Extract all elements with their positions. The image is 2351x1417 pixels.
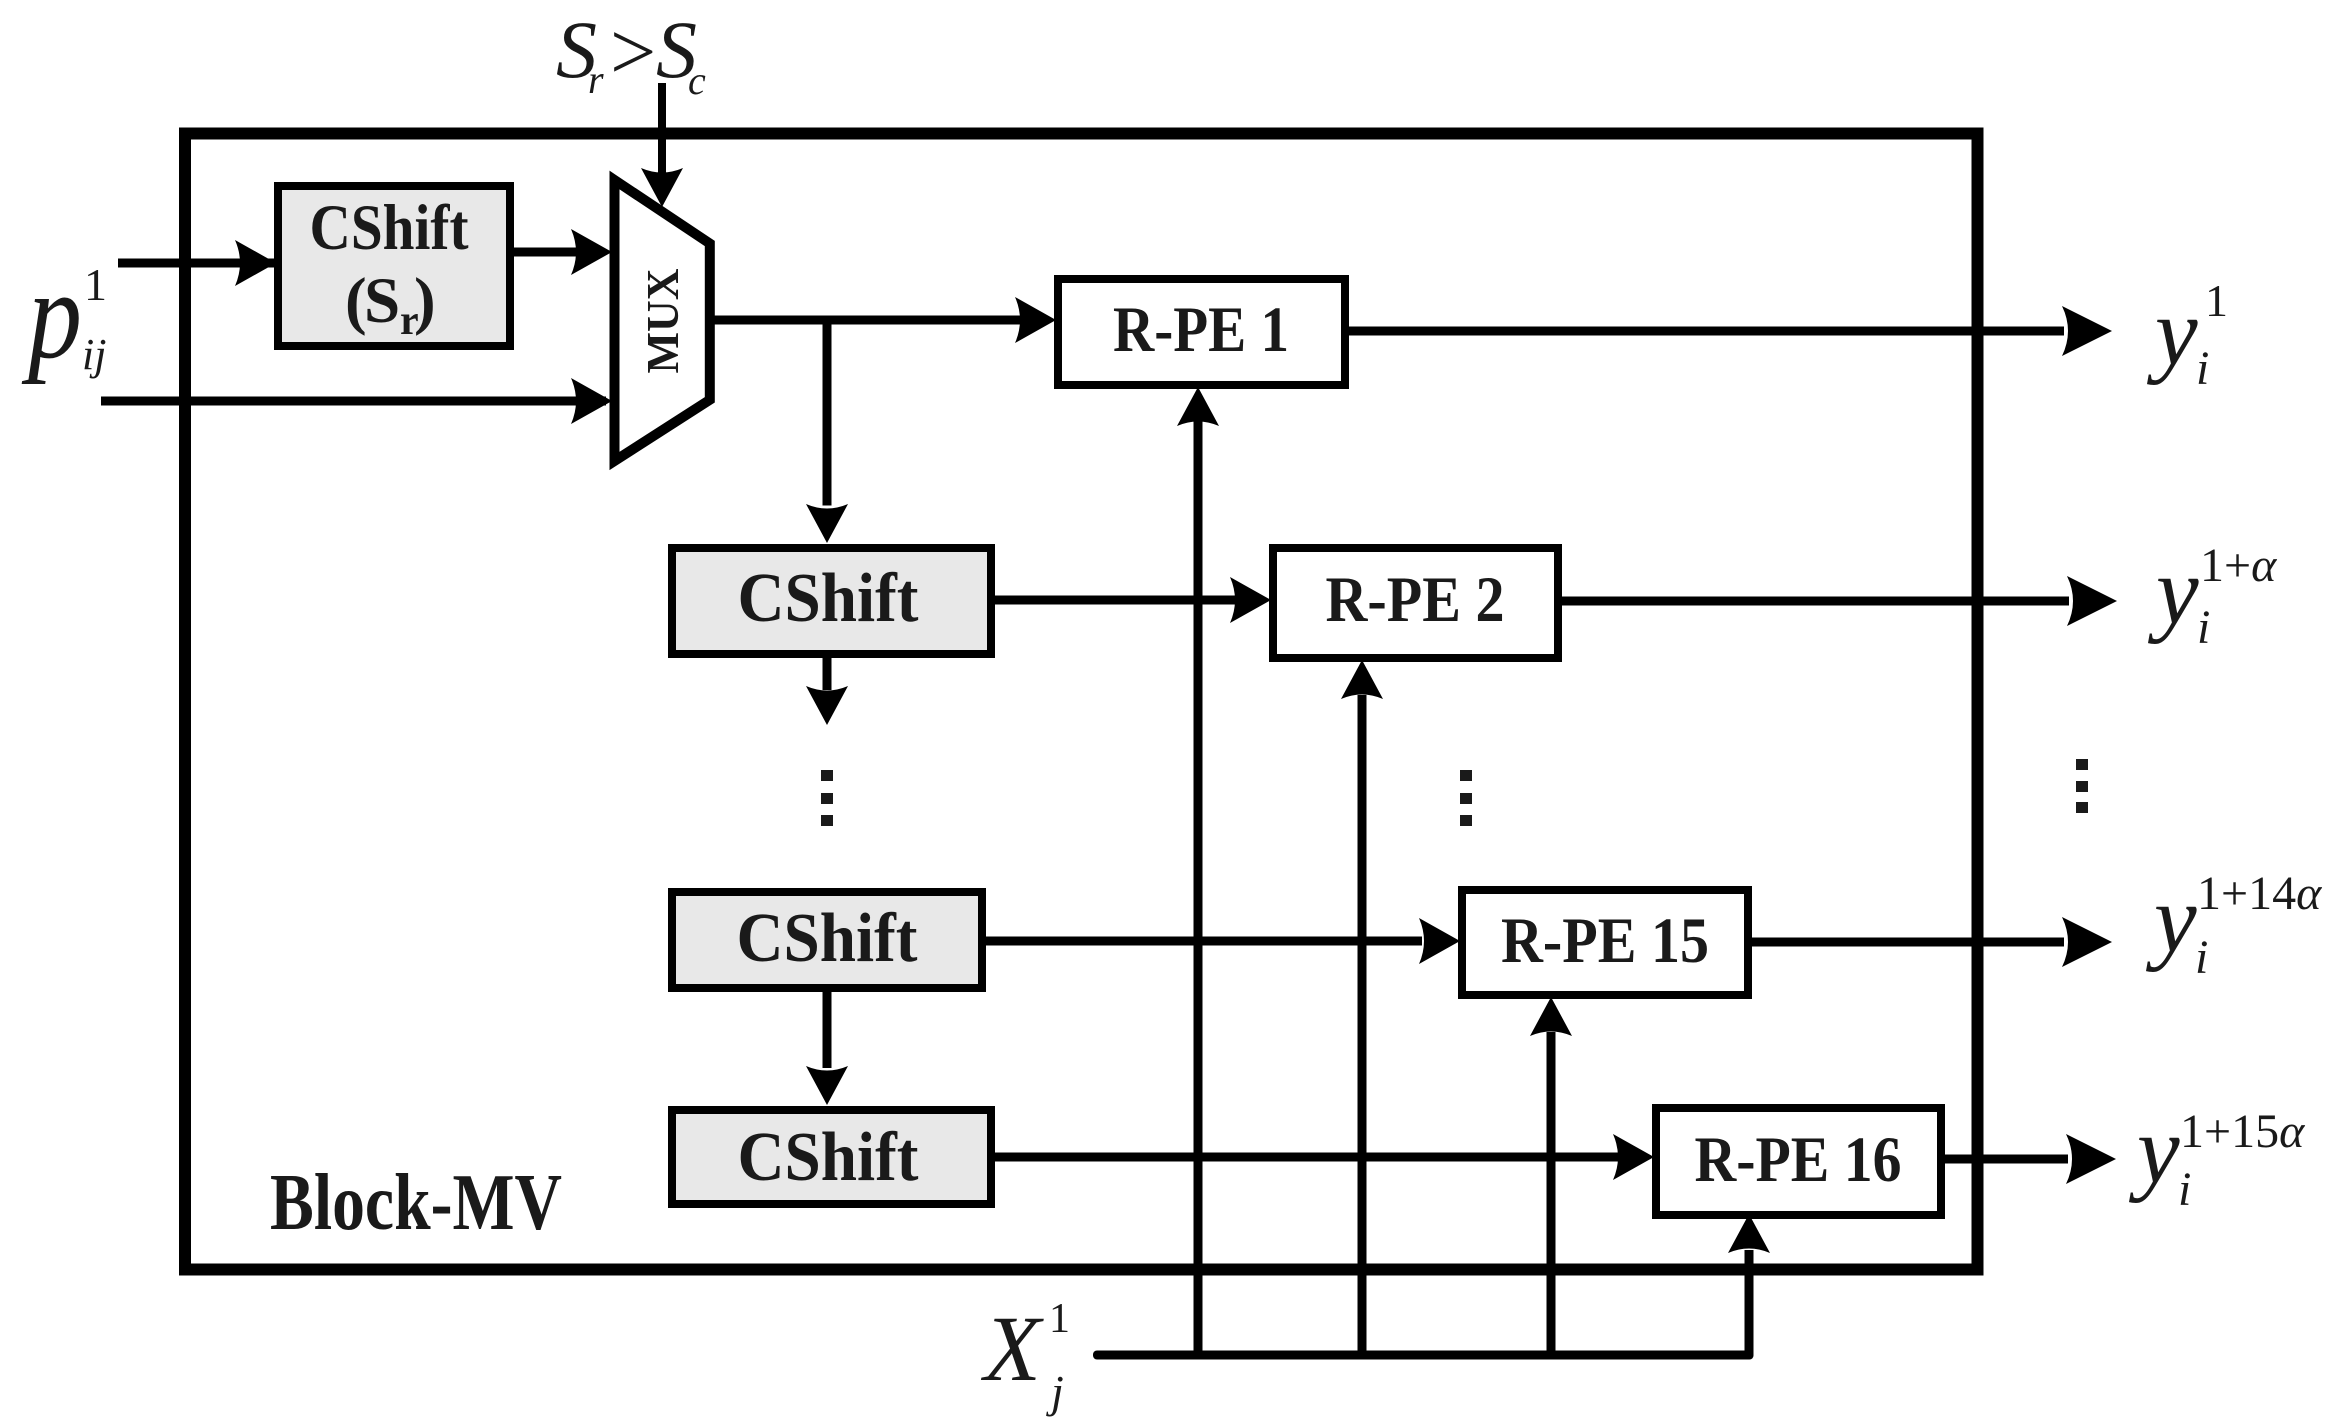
- svg-text:R-PE 16: R-PE 16: [1695, 1124, 1902, 1196]
- arrow into CShift(Sr): [235, 240, 276, 286]
- block R-PE 16: [1656, 1108, 1941, 1215]
- svg-text:1+14α: 1+14α: [2197, 867, 2322, 920]
- riser to R-PE 15: [1547, 1032, 1556, 1355]
- wire X_j bus: [1093, 1351, 1754, 1360]
- arrow into MUX upper: [571, 229, 612, 275]
- wire branch down to CShift 2: [823, 316, 832, 506]
- wire p_ij lower input: [101, 397, 606, 406]
- svg-text:1: 1: [2205, 275, 2228, 326]
- block CShift 3: [672, 892, 982, 988]
- arrow into CShift 2 top: [806, 504, 848, 543]
- wire R-PE 16 output: [1945, 1155, 2068, 1164]
- dots column 1: [821, 770, 833, 826]
- wire CShift 4 to R-PE 16: [995, 1153, 1625, 1162]
- riser to R-PE 2: [1358, 695, 1367, 1355]
- block CShift (Sr): [278, 186, 510, 346]
- arrow select into MUX: [641, 168, 683, 207]
- arrow into R-PE 1 bottom: [1177, 387, 1219, 426]
- svg-text:CShift: CShift: [738, 1119, 919, 1196]
- wire CShift 2 to R-PE 2: [995, 596, 1235, 605]
- svg-text:1: 1: [1049, 1296, 1070, 1342]
- svg-text:p: p: [21, 246, 82, 385]
- wire CShift 3 to R-PE 15: [986, 937, 1422, 946]
- dots column 2: [1460, 770, 1472, 826]
- svg-text:i: i: [2178, 1163, 2191, 1216]
- svg-text:R-PE 15: R-PE 15: [1501, 905, 1709, 977]
- svg-text:1+α: 1+α: [2200, 539, 2277, 592]
- wire MUX output to R-PE 1: [714, 316, 1020, 325]
- wire CShift(Sr) to MUX: [514, 248, 576, 257]
- arrow into R-PE 15: [1419, 918, 1460, 964]
- wire CShift 2 down: [823, 658, 832, 690]
- svg-text:y: y: [2128, 1096, 2180, 1203]
- svg-text:): ): [414, 265, 436, 337]
- svg-text:>: >: [610, 6, 656, 97]
- wire CShift 3 down to CShift 4: [823, 992, 832, 1068]
- block R-PE 15: [1462, 890, 1748, 995]
- arrow into R-PE 2: [1230, 577, 1271, 623]
- arrow output y1: [2062, 306, 2112, 356]
- svg-text:S: S: [364, 265, 400, 337]
- svg-text:i: i: [2195, 931, 2208, 984]
- svg-text:R-PE 2: R-PE 2: [1326, 564, 1505, 636]
- svg-text:CShift: CShift: [738, 560, 919, 637]
- svg-text:Block-MV: Block-MV: [270, 1157, 562, 1247]
- block R-PE 2: [1273, 548, 1558, 658]
- arrow lower into MUX: [571, 378, 612, 424]
- riser to R-PE 1: [1194, 420, 1203, 1355]
- arrow output y1+15a: [2066, 1134, 2116, 1184]
- svg-text:1: 1: [84, 259, 107, 310]
- svg-text:i: i: [2196, 342, 2209, 395]
- outer enclosure Block-MV: [185, 134, 1978, 1270]
- svg-text:CShift: CShift: [737, 900, 918, 977]
- riser to R-PE 16: [1745, 1250, 1754, 1355]
- wire R-PE 15 output: [1752, 938, 2064, 947]
- wire Sr>Sc select into MUX: [658, 83, 666, 173]
- arrow into R-PE 1: [1015, 297, 1056, 343]
- svg-text:r: r: [588, 57, 604, 102]
- arrow into CShift 4 top: [806, 1066, 848, 1105]
- arrow into R-PE 2 bottom: [1341, 660, 1383, 699]
- mux MUX trapezoid: [615, 180, 710, 461]
- svg-text:1+15α: 1+15α: [2180, 1105, 2305, 1158]
- block CShift 2: [672, 548, 991, 654]
- arrow into R-PE 16: [1613, 1134, 1654, 1180]
- svg-text:X: X: [980, 1298, 1044, 1401]
- svg-text:ij: ij: [82, 330, 106, 379]
- wire p_ij upper input: [118, 259, 274, 268]
- svg-text:y: y: [2147, 537, 2199, 644]
- svg-text:MUX: MUX: [637, 269, 688, 374]
- arrow output y1+14a: [2062, 917, 2112, 967]
- dots column 3: [2076, 759, 2088, 813]
- svg-text:i: i: [2197, 601, 2210, 654]
- svg-text:y: y: [2145, 865, 2197, 972]
- block R-PE 1: [1058, 279, 1345, 385]
- svg-text:CShift: CShift: [310, 192, 469, 264]
- wire R-PE 1 output: [1349, 327, 2064, 336]
- svg-text:y: y: [2146, 278, 2198, 385]
- arrow into R-PE 16 bottom: [1728, 1214, 1770, 1253]
- svg-text:c: c: [688, 58, 706, 103]
- arrow into R-PE 15 bottom: [1530, 997, 1572, 1036]
- wire R-PE 2 output: [1562, 597, 2069, 606]
- arrow below CShift 2: [806, 686, 848, 725]
- block CShift 4: [672, 1110, 991, 1204]
- svg-text:j: j: [1046, 1366, 1064, 1417]
- svg-text:R-PE 1: R-PE 1: [1113, 294, 1289, 366]
- arrow output y1+a: [2067, 576, 2117, 626]
